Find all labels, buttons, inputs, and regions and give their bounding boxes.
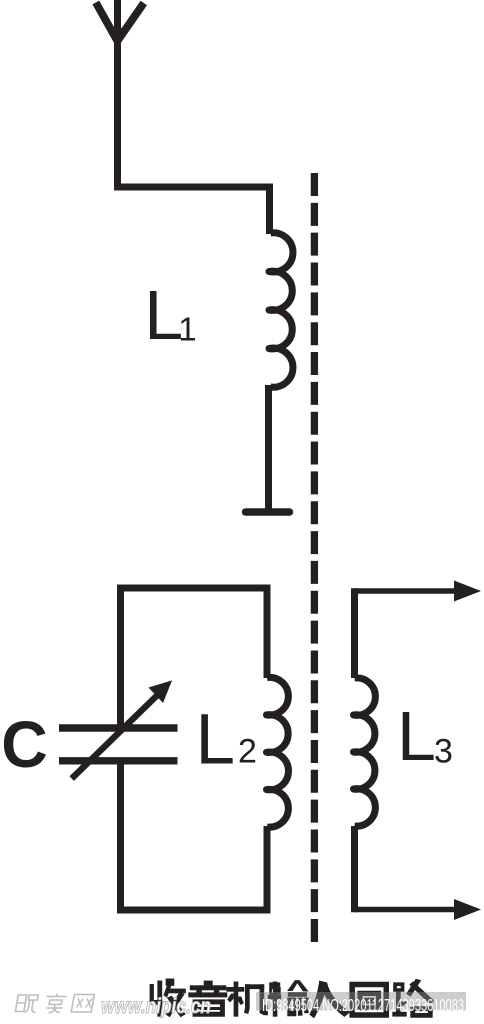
secondary bottom output wire — [355, 907, 459, 913]
label L1 — [144, 276, 196, 354]
capacitor arrow head — [149, 680, 173, 703]
label L2 — [196, 701, 257, 780]
secondary left wire upper — [351, 588, 358, 678]
wire L1 bottom to ground — [265, 385, 272, 511]
svg-text:ID:9849504 NO:2020112714393361: ID:9849504 NO:20201127143933610083 — [262, 995, 464, 1015]
wire antenna to L1 (horizontal) — [114, 184, 270, 191]
bottom output arrowhead — [454, 899, 481, 920]
capacitor C top plate — [59, 724, 178, 731]
watermark nipic logo 昵享网 — [15, 994, 94, 1014]
svg-text:L: L — [397, 697, 436, 775]
inductor L2 — [267, 677, 289, 827]
svg-text:3: 3 — [434, 733, 453, 771]
secondary left wire lower — [351, 826, 358, 912]
title char 收 — [150, 979, 186, 1018]
secondary top output wire — [355, 588, 459, 594]
title char 输 — [268, 980, 309, 1016]
label L3 — [397, 697, 453, 775]
inductor L1 — [269, 233, 293, 387]
title char 回 — [349, 982, 389, 1018]
title char 机 — [226, 982, 267, 1017]
svg-text:L: L — [144, 276, 183, 354]
tank loop left wire upper — [117, 585, 124, 728]
svg-text:2: 2 — [238, 732, 257, 770]
capacitor C bottom plate — [59, 757, 178, 764]
top output arrowhead — [454, 581, 481, 602]
antenna junction fill — [110, 28, 127, 46]
svg-text:1: 1 — [178, 311, 196, 348]
ground bar — [246, 508, 290, 516]
svg-text:C: C — [1, 707, 48, 781]
tank loop top wire — [117, 585, 271, 592]
title char 音 — [188, 981, 227, 1017]
capacitor arrow shaft — [72, 695, 158, 779]
title char 入 — [309, 981, 350, 1019]
tank loop right wire lower — [264, 826, 271, 914]
svg-text:www.nipic.cn: www.nipic.cn — [101, 995, 211, 1018]
antenna mast wire — [114, 0, 121, 191]
svg-text:L: L — [196, 701, 236, 780]
watermark id band — [256, 992, 466, 1011]
antenna right arm — [117, 3, 143, 41]
antenna left arm — [96, 3, 118, 42]
dashed core line — [311, 173, 318, 942]
tank loop bottom wire — [117, 907, 271, 914]
title char 路 — [392, 979, 434, 1018]
wire down to L1 top — [266, 184, 273, 235]
tank loop right wire upper — [264, 585, 271, 679]
inductor L3 — [354, 678, 376, 826]
tank loop left wire lower — [117, 761, 124, 914]
